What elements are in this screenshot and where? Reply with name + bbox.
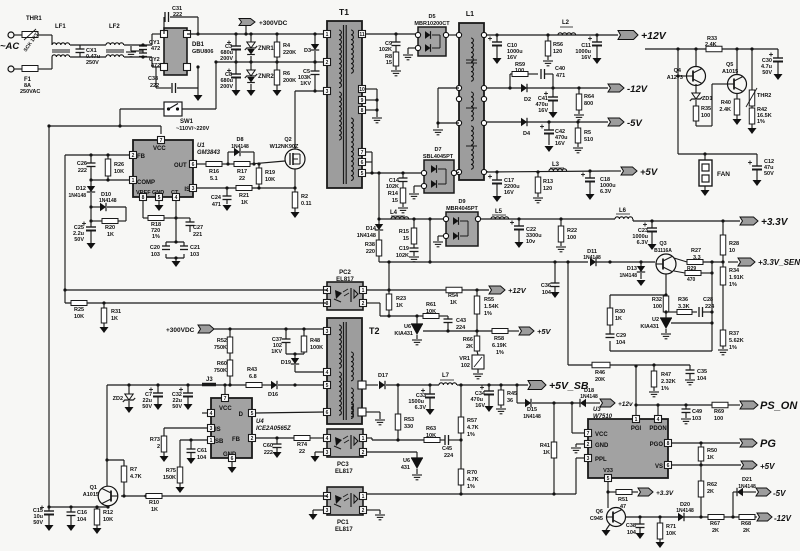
wire R30 to R32	[610, 293, 668, 296]
svg-text:4: 4	[175, 195, 178, 201]
svg-text:16V: 16V	[475, 403, 485, 409]
svg-text:4.7K: 4.7K	[467, 425, 479, 431]
ground under C36 sense	[551, 292, 560, 298]
svg-text:4: 4	[326, 370, 329, 376]
resistor R32	[652, 296, 669, 312]
svg-text:1N4148: 1N4148	[99, 198, 117, 204]
svg-text:LF1: LF1	[55, 24, 66, 30]
svg-text:100K: 100K	[310, 345, 323, 351]
svg-text:R5: R5	[584, 130, 591, 136]
svg-text:50V: 50V	[142, 404, 152, 410]
svg-text:1.91K: 1.91K	[729, 275, 744, 281]
ground under R40	[733, 119, 742, 125]
svg-text:PC1: PC1	[337, 520, 349, 526]
svg-text:+3.3V: +3.3V	[761, 217, 789, 228]
transistor Q5 A1015	[722, 49, 747, 99]
resistor R26	[105, 155, 124, 180]
svg-text:C21: C21	[190, 245, 200, 251]
pin U1-7 VCC	[158, 137, 165, 144]
capacitor C38 b	[626, 517, 645, 536]
thermistor THR1	[22, 16, 42, 53]
ground under C25	[87, 243, 96, 249]
svg-text:C49: C49	[692, 409, 702, 415]
svg-text:50V: 50V	[172, 404, 182, 410]
svg-text:4.7K: 4.7K	[130, 474, 142, 480]
resistor R34	[720, 262, 743, 288]
resistor R35	[693, 100, 711, 126]
wire PC2 pin2 line	[367, 303, 423, 318]
net tag PS_ON	[740, 400, 798, 412]
thermistor THR2	[746, 49, 771, 107]
svg-text:A1015: A1015	[83, 492, 99, 498]
ground under C18	[586, 194, 595, 200]
pin U1-1 COMP	[130, 177, 137, 184]
diode D14	[357, 224, 383, 239]
wire fan rail	[645, 47, 778, 50]
pin L1 left b	[456, 85, 461, 90]
svg-text:8: 8	[361, 108, 364, 114]
svg-text:D17: D17	[378, 373, 388, 379]
capacitor C35	[686, 365, 708, 382]
svg-text:R55: R55	[484, 297, 494, 303]
svg-text:15: 15	[403, 236, 409, 242]
capacitor C8	[220, 62, 241, 90]
svg-text:1K: 1K	[151, 507, 158, 513]
resistor R16	[206, 162, 234, 183]
net tag +5V out	[741, 461, 775, 471]
resistor R48	[301, 329, 323, 354]
svg-text:PS_ON: PS_ON	[760, 400, 798, 412]
svg-text:102K: 102K	[386, 184, 399, 190]
trimmer VR1	[459, 351, 484, 373]
svg-text:100: 100	[567, 235, 576, 241]
svg-text:R66: R66	[463, 337, 473, 343]
svg-text:1%: 1%	[729, 282, 737, 288]
ground under C61	[187, 458, 196, 464]
svg-text:R64: R64	[584, 94, 595, 100]
ground under R42	[748, 128, 757, 134]
svg-text:3: 3	[326, 450, 329, 456]
svg-text:-5V: -5V	[773, 489, 786, 498]
pin U3-6 VS	[665, 462, 672, 469]
wire L1 tap ground	[436, 88, 459, 128]
svg-text:Q2: Q2	[284, 137, 291, 143]
svg-text:104: 104	[77, 517, 87, 523]
wire R41 drop	[553, 403, 555, 442]
wire CY taps	[141, 43, 144, 58]
diode D20	[676, 502, 694, 521]
capacitor C40 bypass	[541, 66, 565, 88]
inductor L5	[491, 209, 509, 219]
wire R7 branch	[107, 460, 124, 466]
svg-text:V33: V33	[603, 468, 613, 474]
ground under R75	[176, 487, 185, 493]
pin U3-3 PPL	[585, 455, 592, 462]
svg-text:R19: R19	[265, 170, 275, 176]
pin T1-10	[359, 86, 366, 93]
svg-text:+5V_SB: +5V_SB	[549, 380, 589, 392]
pin U4-4	[202, 410, 215, 417]
diode D15	[523, 399, 580, 420]
svg-text:1N4148: 1N4148	[580, 394, 598, 400]
capacitor C60	[263, 438, 282, 456]
ground under U1 GND pin	[155, 200, 164, 211]
ground at PC1	[309, 514, 318, 520]
svg-text:1: 1	[210, 438, 213, 444]
capacitor C34	[470, 385, 494, 409]
svg-text:D12: D12	[76, 186, 86, 192]
pin T1-8	[359, 107, 366, 114]
node AC terminal N	[8, 66, 14, 72]
resistor R59 bypass	[510, 62, 538, 88]
connector FAN	[699, 154, 730, 190]
svg-text:R75: R75	[166, 468, 176, 474]
svg-text:2K: 2K	[466, 344, 473, 350]
svg-text:1K: 1K	[111, 316, 118, 322]
svg-text:3: 3	[326, 301, 329, 307]
svg-text:R2: R2	[301, 194, 308, 200]
svg-text:R34: R34	[729, 268, 740, 274]
net tag +12V aux	[489, 286, 527, 295]
ground under R73	[160, 456, 169, 462]
pin L1 right e	[481, 169, 486, 174]
svg-text:6.3V: 6.3V	[600, 189, 612, 195]
svg-text:22: 22	[299, 449, 305, 455]
wire PC3 pin2 line	[367, 452, 417, 458]
svg-text:104: 104	[627, 530, 637, 536]
svg-text:+5V: +5V	[537, 327, 552, 336]
svg-text:MBR10200CT: MBR10200CT	[414, 21, 450, 27]
svg-text:100: 100	[714, 416, 723, 422]
svg-text:PC3: PC3	[337, 462, 349, 468]
ground under C7	[154, 404, 163, 410]
resistor R46	[592, 362, 690, 383]
svg-text:2: 2	[132, 153, 135, 159]
svg-text:R41: R41	[540, 443, 550, 449]
svg-text:330: 330	[404, 424, 413, 430]
pin T2-3	[324, 328, 331, 335]
resistor R64	[576, 88, 595, 114]
wire U3 GND	[576, 444, 585, 447]
svg-text:10v: 10v	[526, 239, 536, 245]
svg-text:SBL4045PT: SBL4045PT	[423, 154, 454, 160]
svg-text:D16: D16	[268, 392, 278, 398]
svg-text:104: 104	[542, 290, 552, 296]
resistor R31	[101, 303, 121, 327]
svg-text:EL817: EL817	[336, 277, 354, 283]
svg-text:6: 6	[361, 160, 364, 166]
pin T1-11	[359, 31, 366, 38]
inductor L3	[549, 162, 567, 171]
svg-text:C20: C20	[150, 245, 160, 251]
resistor R47	[651, 365, 675, 392]
svg-text:8: 8	[142, 195, 145, 201]
svg-text:224: 224	[444, 453, 454, 459]
svg-text:D: D	[239, 412, 244, 418]
svg-text:6.3V: 6.3V	[415, 405, 427, 411]
svg-text:D2: D2	[524, 97, 531, 103]
wire COMP line	[89, 178, 130, 181]
svg-text:100: 100	[515, 68, 524, 74]
svg-text:1N4148: 1N4148	[738, 484, 756, 490]
resistor R75	[163, 467, 183, 487]
pin U4-5 D	[249, 410, 256, 417]
ground under C22	[515, 242, 524, 248]
ground under C32	[184, 404, 193, 410]
svg-text:36: 36	[507, 398, 513, 404]
svg-text:11: 11	[359, 32, 365, 38]
svg-text:3: 3	[326, 508, 329, 514]
svg-text:PDON: PDON	[649, 426, 666, 432]
svg-text:OUT: OUT	[174, 163, 187, 169]
svg-text:R36: R36	[678, 297, 688, 303]
net tag +5V_SB	[528, 380, 589, 392]
resistor R57	[458, 385, 478, 438]
capacitor C27	[176, 218, 203, 238]
svg-text:R43: R43	[247, 367, 257, 373]
resistor R27	[687, 248, 725, 265]
ground under D13	[637, 280, 646, 286]
svg-text:D21: D21	[742, 477, 752, 483]
wire +12V rail	[487, 33, 618, 36]
transistor Q4 A1273	[667, 49, 706, 93]
svg-text:D3: D3	[304, 48, 311, 54]
wire +3.3V rail right	[633, 219, 740, 223]
svg-text:6.19K: 6.19K	[492, 343, 507, 349]
ground under C10	[493, 58, 502, 64]
pin U1-4 CT	[173, 194, 180, 201]
svg-text:1%: 1%	[729, 345, 737, 351]
svg-text:-12V: -12V	[774, 514, 792, 523]
net tag PG	[740, 438, 776, 450]
svg-text:R27: R27	[691, 248, 701, 254]
svg-text:20K: 20K	[595, 377, 605, 383]
svg-text:ICE2A0565Z: ICE2A0565Z	[256, 426, 291, 432]
svg-text:R37: R37	[729, 331, 739, 337]
diode D11	[583, 249, 655, 266]
svg-text:C61: C61	[197, 448, 207, 454]
resistor R62	[698, 465, 717, 517]
inductor L2	[558, 20, 576, 35]
capacitor C31	[164, 6, 200, 36]
svg-text:0.11: 0.11	[301, 201, 311, 207]
svg-text:R14: R14	[388, 191, 399, 197]
wire SB line	[180, 438, 207, 467]
svg-text:C38: C38	[626, 523, 636, 529]
diode D16	[268, 381, 324, 398]
ground at D9	[433, 242, 443, 247]
svg-text:1%: 1%	[757, 119, 765, 125]
pin T2 right a	[358, 381, 366, 389]
transistor Q6 C945	[590, 508, 626, 531]
wire D14 R38 branch	[378, 173, 380, 224]
pin L1 right a	[481, 32, 486, 37]
svg-text:750K: 750K	[214, 345, 227, 351]
net tag +5V	[610, 167, 658, 178]
svg-text:C26: C26	[77, 161, 87, 167]
resistor R61	[423, 302, 448, 319]
svg-text:R60: R60	[217, 361, 227, 367]
svg-text:5: 5	[326, 383, 329, 389]
net tag +3.3V	[740, 217, 789, 228]
resistor R29	[685, 266, 714, 283]
svg-text:Q3: Q3	[659, 241, 666, 247]
ground under R45	[496, 409, 506, 414]
resistor R25	[71, 301, 87, 321]
resistor R70	[458, 469, 478, 494]
svg-text:3.3: 3.3	[693, 255, 701, 261]
pin U4-3 IS	[208, 425, 215, 432]
pin U1-8 VREF	[140, 194, 147, 201]
capacitor CY2	[139, 51, 160, 69]
svg-text:104: 104	[616, 340, 626, 346]
resistor R18	[148, 216, 178, 241]
resistor R13	[535, 172, 553, 197]
svg-text:Q1: Q1	[90, 485, 97, 491]
resistor R45	[498, 385, 517, 408]
ground T2 right	[375, 420, 385, 425]
svg-text:4: 4	[210, 411, 213, 417]
svg-text:R40: R40	[721, 100, 731, 106]
svg-text:2: 2	[326, 60, 329, 66]
wire R46 sense feed	[568, 262, 592, 365]
net tag +5V fb	[519, 327, 552, 336]
svg-text:1.54K: 1.54K	[484, 304, 499, 310]
wire PC1 pin2 stub	[367, 510, 380, 514]
inductor L1	[459, 11, 484, 180]
ground under R5	[573, 148, 583, 153]
varistor ZNR2	[245, 62, 275, 90]
capacitor C45	[442, 435, 463, 459]
ground under C15	[45, 525, 54, 531]
optocoupler PC1 EL817	[327, 487, 363, 533]
pin PC1-1	[360, 493, 367, 500]
ground under C35	[685, 380, 695, 385]
ground under C34	[485, 406, 494, 412]
svg-text:7: 7	[160, 138, 163, 144]
dual diode D9 MBR4045PT	[443, 199, 480, 246]
ground under R64	[574, 115, 584, 120]
svg-text:5: 5	[251, 411, 254, 417]
pin U1-3 IS	[190, 185, 197, 192]
svg-text:100: 100	[701, 113, 710, 119]
svg-text:~110V/~220V: ~110V/~220V	[176, 126, 210, 132]
svg-text:R6: R6	[283, 71, 290, 77]
resistor R8	[385, 52, 399, 70]
ground under C12	[753, 180, 762, 186]
svg-text:3: 3	[210, 426, 213, 432]
svg-text:C24: C24	[211, 195, 222, 201]
svg-text:R46: R46	[595, 370, 605, 376]
svg-text:Q6: Q6	[596, 509, 603, 515]
wire -5V rail	[487, 120, 608, 123]
svg-text:1N4148: 1N4148	[68, 193, 86, 199]
svg-text:3: 3	[326, 89, 329, 95]
svg-text:8: 8	[667, 441, 670, 447]
svg-text:PGO: PGO	[650, 442, 664, 448]
svg-text:10K: 10K	[426, 433, 436, 439]
svg-text:1N4148: 1N4148	[231, 144, 249, 150]
resistor R56	[545, 35, 563, 60]
svg-text:750K: 750K	[214, 368, 227, 374]
earth ground for CY caps	[126, 46, 143, 57]
svg-text:5: 5	[361, 171, 364, 177]
wire PDON drop	[656, 403, 659, 416]
pin U3-2 GND	[585, 441, 592, 448]
svg-text:1%: 1%	[467, 484, 475, 490]
pin T1-3	[324, 88, 331, 95]
ground under R6	[273, 90, 282, 96]
diode D3	[304, 34, 319, 62]
resistor R69	[712, 402, 740, 422]
svg-text:R13: R13	[543, 179, 553, 185]
zener ZD2	[113, 385, 136, 407]
net tag -5V out	[756, 488, 786, 498]
resistor R58	[492, 329, 519, 357]
ground under R22	[556, 247, 566, 252]
capacitor C22	[510, 219, 542, 245]
resistor R53	[395, 385, 414, 440]
capacitor C32	[172, 385, 193, 410]
svg-text:100: 100	[653, 304, 662, 310]
pin L1 left a	[456, 32, 461, 37]
svg-text:KIA431: KIA431	[640, 324, 659, 330]
svg-text:471: 471	[212, 202, 221, 208]
ground under R2	[291, 212, 300, 218]
resistor R4	[274, 34, 296, 62]
resistor R36	[666, 297, 697, 315]
svg-text:D7: D7	[434, 147, 441, 153]
svg-text:EL817: EL817	[335, 469, 353, 475]
label ~AC	[0, 41, 19, 52]
wire PC2 pin4 long line	[63, 288, 327, 291]
svg-text:+300VDC: +300VDC	[259, 20, 288, 27]
svg-text:THR2: THR2	[757, 93, 771, 99]
resistor R38	[365, 231, 382, 262]
ground under C38 b	[636, 533, 645, 539]
svg-text:L7: L7	[442, 373, 450, 379]
net tag -12V	[608, 84, 648, 95]
svg-text:1K: 1K	[450, 300, 457, 306]
svg-text:222: 222	[78, 168, 87, 174]
pin PC3-2	[360, 449, 367, 456]
pin L1 right d	[481, 120, 486, 125]
diode D8	[228, 137, 254, 164]
pin U4-1 SB	[208, 437, 215, 444]
svg-text:1%: 1%	[484, 311, 492, 317]
svg-text:1K: 1K	[241, 200, 248, 206]
svg-text:2: 2	[362, 508, 365, 514]
svg-text:3: 3	[192, 186, 195, 192]
svg-text:2: 2	[362, 450, 365, 456]
svg-text:U6: U6	[403, 458, 410, 464]
svg-text:16V: 16V	[538, 108, 548, 114]
svg-text:D8: D8	[236, 137, 243, 143]
wire mid rail	[216, 60, 325, 63]
svg-text:C35: C35	[697, 369, 707, 375]
svg-text:GM3843: GM3843	[197, 150, 221, 156]
ground under R14	[398, 208, 408, 213]
svg-text:~AC: ~AC	[0, 41, 19, 52]
pin PC3-4	[324, 435, 331, 442]
capacitor C24	[211, 188, 232, 208]
ground under R47	[649, 392, 659, 397]
svg-text:104: 104	[697, 376, 707, 382]
svg-text:U4: U4	[256, 419, 264, 425]
pin U3-8 PGO	[665, 440, 672, 447]
resistor R21	[236, 186, 252, 207]
svg-text:R74: R74	[297, 442, 308, 448]
